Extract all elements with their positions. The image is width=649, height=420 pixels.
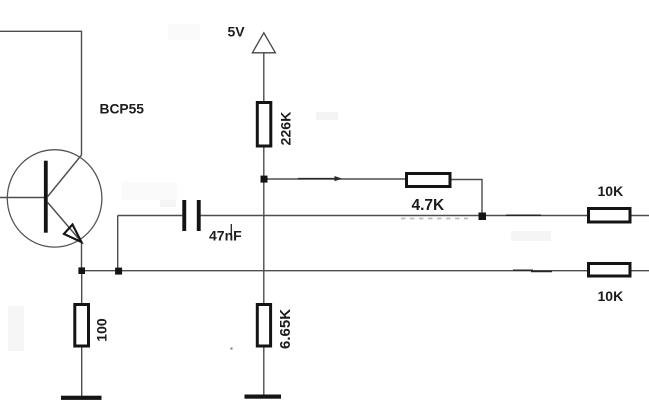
svg-text:10K: 10K	[598, 288, 624, 304]
svg-text:6.65K: 6.65K	[277, 309, 294, 349]
svg-text:5V: 5V	[228, 24, 246, 40]
svg-text:226K: 226K	[279, 111, 295, 146]
svg-text:100: 100	[94, 318, 110, 342]
svg-text:BCP55: BCP55	[100, 102, 145, 117]
svg-text:10K: 10K	[598, 183, 624, 199]
svg-text:47nF: 47nF	[209, 227, 242, 243]
svg-text:4.7K: 4.7K	[412, 197, 446, 214]
